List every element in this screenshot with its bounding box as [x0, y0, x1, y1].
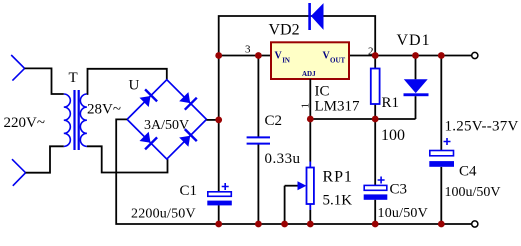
- op IC U1 LM317 body: [271, 42, 349, 79]
- svg-text:28V~: 28V~: [87, 102, 121, 118]
- output terminal plus: [472, 52, 478, 58]
- svg-text:ADJ: ADJ: [302, 70, 316, 78]
- wire: ADJ pin down: [309, 79, 311, 119]
- svg-text:0.33u: 0.33u: [265, 151, 301, 167]
- svg-text:IN: IN: [282, 57, 290, 65]
- wire: bridge left corner to ground rail: [116, 119, 472, 224]
- potentiometer RP1 body: [307, 168, 314, 205]
- svg-text:3A/50V: 3A/50V: [144, 118, 189, 133]
- junction dot top rail at C2: [255, 52, 262, 59]
- capacitor C4 plus sign: [444, 138, 451, 145]
- output terminal minus: [472, 221, 478, 227]
- junction dot top rail at x219: [215, 52, 222, 59]
- transformer T core: [73, 90, 75, 150]
- junction dot ground at C3: [372, 221, 379, 228]
- svg-text:T: T: [69, 70, 78, 86]
- junction dot ground at wiper: [281, 221, 288, 228]
- junction dot top rail at R1: [372, 52, 379, 59]
- wire: C4 branch: [440, 56, 442, 225]
- svg-text:1: 1: [300, 103, 312, 109]
- svg-text:10u/50V: 10u/50V: [378, 206, 428, 221]
- top rail wire: [219, 55, 472, 57]
- input terminal top (220V line): [11, 55, 24, 81]
- junction dot ground at C2: [255, 221, 262, 228]
- capacitor C3 plus sign: [378, 177, 385, 184]
- svg-text:VD1: VD1: [397, 32, 431, 49]
- svg-text:220V~: 220V~: [4, 115, 45, 131]
- svg-text:RP1: RP1: [323, 169, 353, 186]
- bridge diode D-a (left to top): [140, 89, 158, 107]
- junction dot bridge right: [215, 117, 222, 124]
- diode VD1 wire top: [415, 56, 417, 80]
- bridge diode D-d (bottom to right): [179, 129, 197, 147]
- junction dot ADJ node: [307, 116, 314, 123]
- capacitor C1 positive plate: [208, 192, 232, 197]
- svg-text:C4: C4: [459, 164, 477, 180]
- junction dot ground at RP1: [307, 221, 314, 228]
- capacitor C1 negative plate: [207, 201, 232, 206]
- wire: bottom input to primary bottom: [26, 146, 64, 172]
- junction dot R1 bottom: [372, 116, 379, 123]
- wire: secondary bottom to bridge bottom corner: [87, 146, 168, 172]
- capacitor C1 plus sign: [222, 183, 229, 190]
- junction dot ground at C4: [438, 221, 445, 228]
- transformer T primary winding: [64, 94, 71, 146]
- bridge rectifier U diamond edges: [127, 80, 206, 159]
- svg-text:LM317: LM317: [315, 99, 361, 115]
- potentiometer RP1 wire bottom: [309, 210, 311, 224]
- capacitor C4 negative plate: [429, 161, 454, 167]
- wire: wiper down to ground rail: [284, 186, 286, 224]
- wire: mid horizontal ADJ to VD1: [310, 118, 415, 120]
- input terminal bottom (220V line): [12, 159, 26, 186]
- junction dot top rail at C4: [438, 52, 445, 59]
- resistor R1 stubs: [374, 56, 376, 120]
- junction dot top rail at VD1: [412, 52, 419, 59]
- wire: bridge right corner stub: [207, 119, 219, 121]
- svg-text:5.1K: 5.1K: [323, 193, 353, 209]
- svg-text:100: 100: [381, 127, 405, 144]
- capacitor C3 positive plate: [364, 185, 387, 190]
- svg-text:IC: IC: [315, 84, 330, 100]
- svg-text:1.25V--37V: 1.25V--37V: [445, 119, 519, 135]
- capacitor C2 plates: [247, 137, 270, 143]
- svg-text:2200u/50V: 2200u/50V: [131, 207, 196, 222]
- potentiometer RP1 wire top: [309, 119, 311, 162]
- junction dot ground at C1: [215, 221, 222, 228]
- potentiometer RP1 stub bottom blue: [309, 204, 311, 210]
- wire: C2 branch: [257, 56, 259, 225]
- svg-text:3: 3: [245, 44, 251, 56]
- wire: secondary top to bridge top corner: [87, 69, 167, 94]
- potentiometer RP1 stub top blue: [309, 162, 311, 168]
- diode VD1 cathode bar: [404, 93, 429, 96]
- svg-text:U: U: [129, 78, 140, 94]
- bridge diode D-c (left to bottom): [140, 132, 158, 150]
- svg-text:OUT: OUT: [330, 57, 346, 65]
- potentiometer RP1 wiper arrow: [285, 185, 299, 187]
- svg-text:100u/50V: 100u/50V: [445, 185, 501, 200]
- capacitor C4 positive plate: [430, 151, 454, 156]
- diode VD2 triangle: [311, 3, 324, 30]
- resistor R1 body: [371, 69, 380, 105]
- wire: C3 branch: [374, 119, 376, 224]
- diode VD1 triangle: [404, 79, 428, 93]
- svg-text:C3: C3: [390, 182, 408, 198]
- svg-text:C1: C1: [180, 183, 198, 199]
- diode VD1 wire bottom: [415, 96, 417, 119]
- wire: main left vertical (DC+ down to C1): [218, 56, 220, 192]
- wire: C1 bottom to ground rail: [218, 205, 220, 224]
- diode VD2 cathode bar: [308, 3, 311, 30]
- capacitor C3 negative plate: [364, 194, 388, 199]
- wire: top input to primary top: [25, 68, 64, 94]
- VD2 loop wire: [219, 16, 376, 56]
- svg-text:R1: R1: [382, 95, 400, 111]
- bridge diode D-b (top to right): [179, 92, 197, 110]
- transformer T secondary winding: [80, 94, 87, 146]
- svg-text:C2: C2: [265, 113, 283, 129]
- svg-text:VD2: VD2: [269, 22, 300, 39]
